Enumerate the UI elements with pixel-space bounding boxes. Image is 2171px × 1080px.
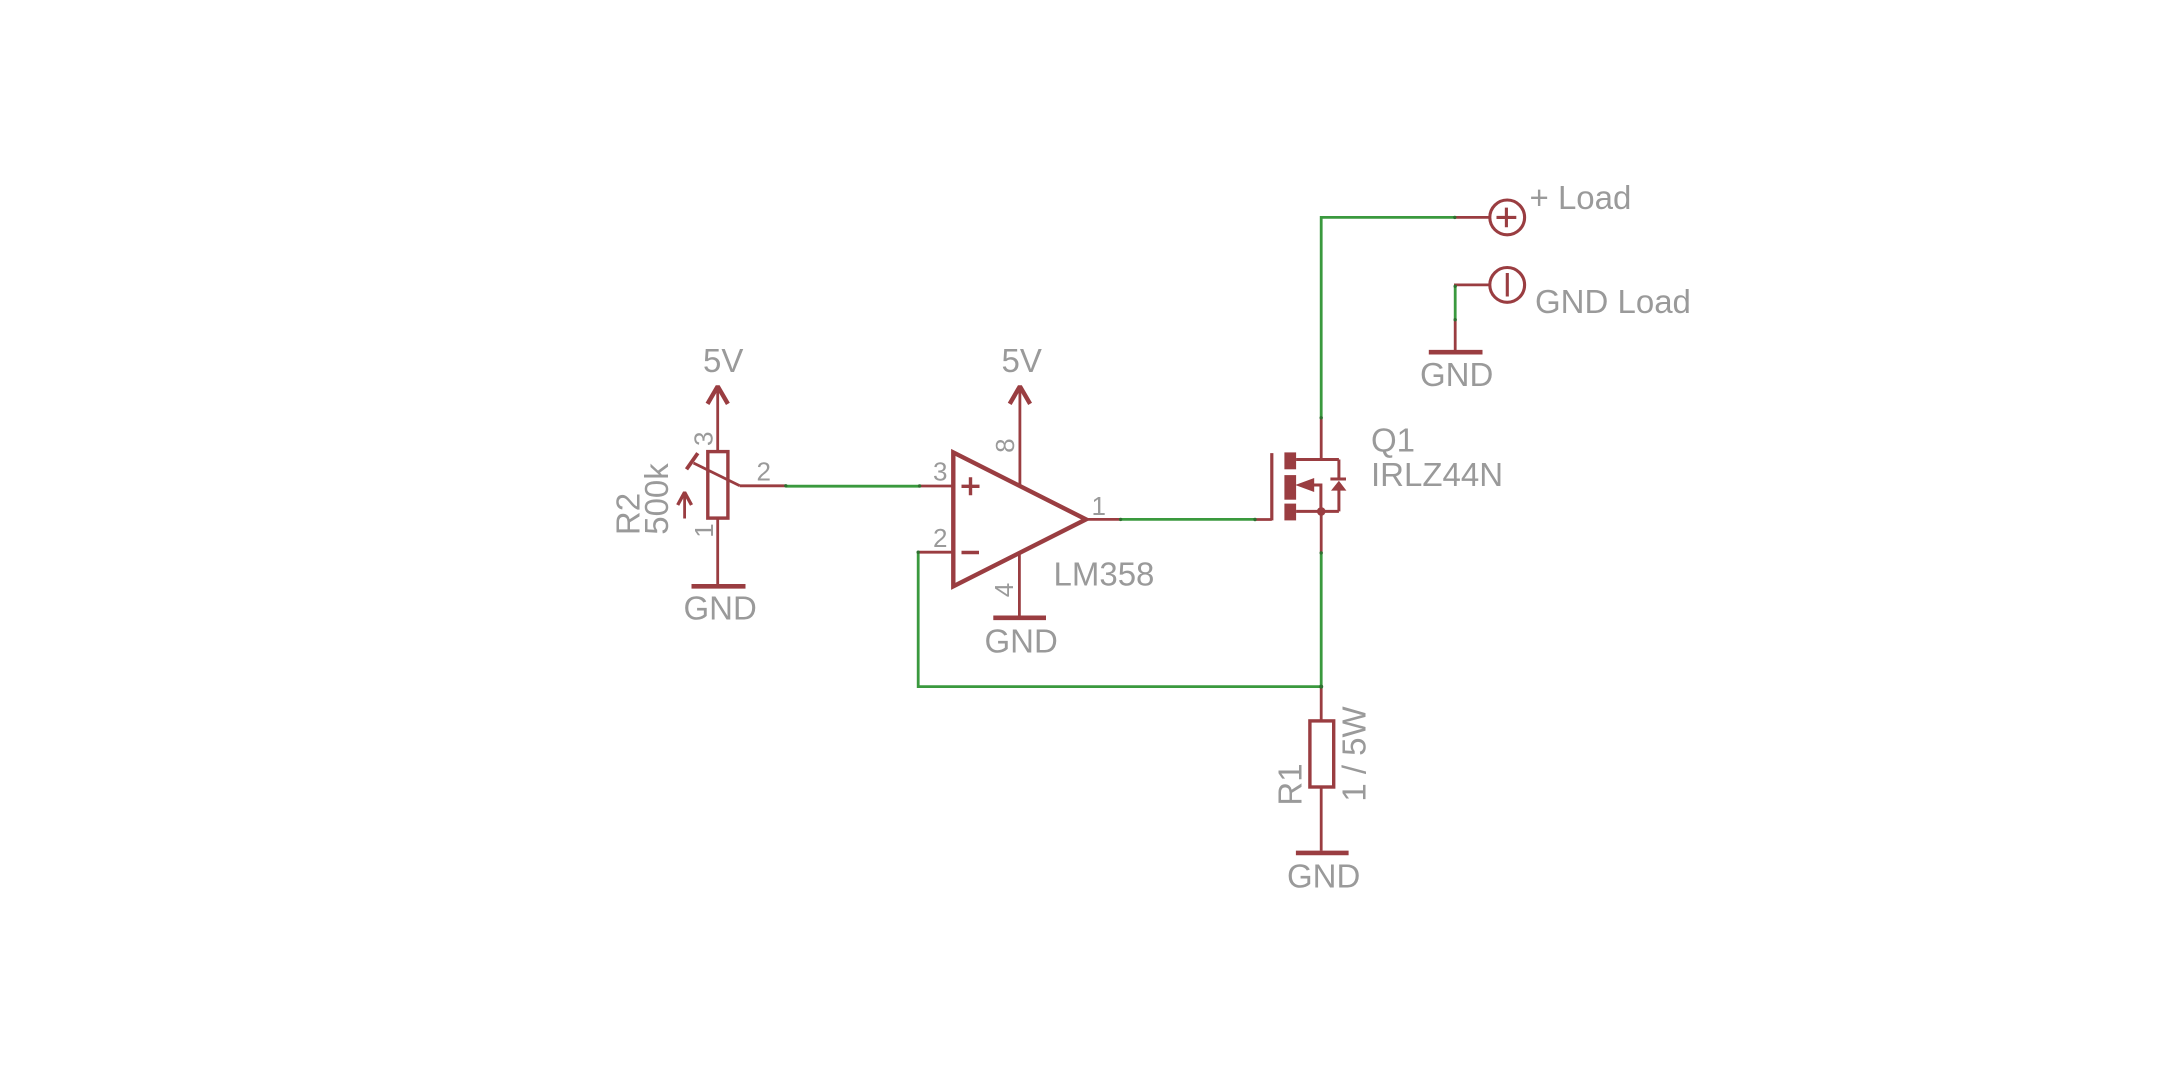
svg-text:500k: 500k — [638, 463, 675, 535]
svg-text:LM358: LM358 — [1054, 555, 1155, 592]
svg-text:8: 8 — [990, 438, 1020, 452]
svg-text:R1: R1 — [1272, 763, 1309, 805]
svg-text:3: 3 — [933, 457, 947, 487]
svg-text:5V: 5V — [1002, 342, 1042, 379]
svg-text:IRLZ44N: IRLZ44N — [1371, 456, 1503, 493]
svg-text:1 / 5W: 1 / 5W — [1336, 705, 1373, 801]
svg-text:GND: GND — [684, 589, 757, 626]
svg-text:5V: 5V — [703, 342, 743, 379]
svg-text:2: 2 — [933, 523, 947, 553]
svg-text:4: 4 — [989, 583, 1019, 597]
svg-text:1: 1 — [1092, 491, 1106, 521]
svg-text:3: 3 — [689, 432, 719, 446]
svg-text:GND: GND — [1287, 857, 1360, 894]
svg-text:+ Load: + Load — [1530, 179, 1632, 216]
svg-text:GND Load: GND Load — [1535, 283, 1691, 320]
svg-text:Q1: Q1 — [1371, 422, 1415, 459]
svg-text:2: 2 — [757, 457, 771, 487]
svg-text:GND: GND — [1420, 356, 1493, 393]
svg-text:1: 1 — [689, 523, 719, 537]
svg-text:GND: GND — [985, 623, 1058, 660]
